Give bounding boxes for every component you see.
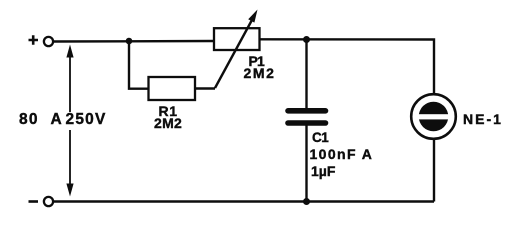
arrowhead of P1 wiper [248,10,257,23]
label 80 A 250V [19,112,39,128]
node junction dot top of C1 [303,36,310,43]
wire top left (+ terminal to P1) [54,40,214,43]
terminal + circle [44,37,53,46]
minus sign [29,200,39,203]
label NE-1 [463,112,503,126]
measuring arrowhead down [66,184,73,197]
label P1 [249,54,265,68]
label R1 value 2M2 [154,116,182,130]
node junction dot left (R1 branch) [126,38,133,45]
wire P1 wiper diagonal [215,19,253,88]
potentiometer P1 [214,28,260,50]
label R1 [159,104,169,118]
wire C1 bottom [305,126,307,202]
plus sign [29,35,39,44]
capacitor C1 top plate [288,108,326,114]
wire R1 right side [195,87,215,89]
label C1 [312,131,328,145]
label P1 value 2M2 [244,66,276,80]
measuring arrowhead up [66,45,73,58]
neon lamp NE-1 electrodes [419,102,449,132]
wire top right (P1 to lamp corner and down) [259,39,434,93]
label C1 value 100nF A [310,147,374,161]
wire C1 top [305,40,307,109]
terminal - circle [44,197,53,206]
capacitor C1 bottom plate [288,120,326,126]
node junction dot bottom of C1 [303,198,310,205]
wire lamp bottom [433,140,435,202]
resistor R1 [149,77,196,100]
neon lamp NE-1 envelope [411,94,456,139]
wire junction down to R1 [129,41,148,89]
measuring arrow shaft upper [69,55,71,112]
measuring arrow shaft lower [69,130,71,186]
label C1 value 1uF [311,164,335,178]
wire bottom [54,200,434,202]
